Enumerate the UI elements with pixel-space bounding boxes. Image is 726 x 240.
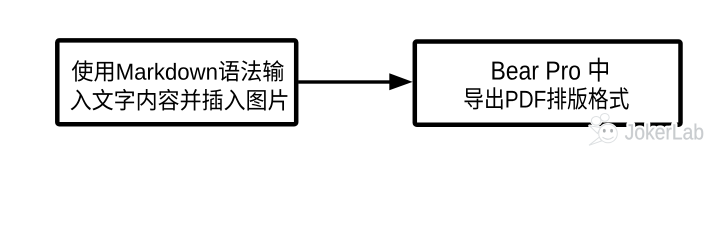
watermark JokerLab text halo xyxy=(625,124,703,140)
arrow shaft xyxy=(298,80,393,83)
watermark joker icon xyxy=(589,114,617,146)
right box text line 2 xyxy=(465,87,629,109)
arrowhead xyxy=(389,73,412,90)
left box text line 1 xyxy=(72,60,284,81)
flowchart box: left process xyxy=(57,40,296,124)
right box text line 1 xyxy=(492,58,608,82)
flowchart box: right process xyxy=(415,42,681,125)
left box text line 2 xyxy=(71,89,288,111)
watermark JokerLab text xyxy=(625,124,703,140)
